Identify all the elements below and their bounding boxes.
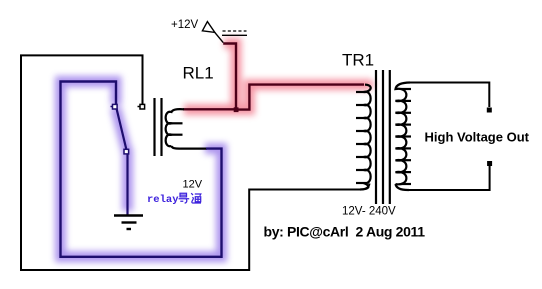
dashed line right of arrow <box>223 30 247 32</box>
node: red junction square <box>234 107 239 112</box>
label relay(conducting) purple <box>147 194 179 206</box>
wire: +12V arrow to junction node (red net core) <box>223 44 236 110</box>
svg-text:12V: 12V <box>183 179 203 191</box>
wire: junction to TR1 primary top (red net core) <box>236 85 364 110</box>
relay contact: fixed terminal square <box>138 104 145 109</box>
wire: left contact-circuit box <box>21 55 360 270</box>
relay RL1 coil <box>166 109 184 148</box>
ground symbol <box>114 216 143 230</box>
transformer TR1 secondary winding <box>396 83 412 191</box>
wire: RL1 coil bottom loop (purple net core) <box>181 148 207 150</box>
wire: TR1 primary bottom exit curl <box>360 184 370 190</box>
relay contact: pivot terminal square <box>111 104 118 109</box>
relay contact: blade lower terminal square <box>124 149 129 154</box>
svg-text:High Voltage Out: High Voltage Out <box>425 130 530 145</box>
power symbol: +12V open arrow <box>202 22 223 43</box>
svg-text:+12V: +12V <box>171 19 199 31</box>
wire: secondary bottom to output terminal <box>409 166 490 190</box>
solid line under dashes <box>222 34 247 36</box>
terminal: output bottom square <box>487 161 492 166</box>
wire: contact blade to ground (purple net core) <box>117 109 128 215</box>
svg-text:by: PIC@cArl 2 Aug 2011: by: PIC@cArl 2 Aug 2011 <box>264 224 426 240</box>
wire: junction to RL1 coil top (red net core) <box>183 108 236 110</box>
wire: secondary top to output terminal <box>410 83 489 108</box>
svg-text:TR1: TR1 <box>342 51 374 70</box>
label CJK tong (through) glyph 2 <box>191 193 201 203</box>
transformer TR1 primary winding <box>356 85 371 190</box>
svg-text:12V- 240V: 12V- 240V <box>342 206 396 218</box>
terminal: output top square <box>487 108 492 113</box>
relay RL1 core bars <box>155 98 162 156</box>
svg-text:relay: relay <box>147 194 179 206</box>
transformer TR1 core bars <box>376 70 390 204</box>
label CJK dao (conduct) glyph 1 <box>179 193 190 203</box>
red glow: +12V supply net <box>184 44 371 110</box>
svg-text:RL1: RL1 <box>183 64 214 83</box>
purple glow: energized relay-coil return net <box>61 82 222 257</box>
